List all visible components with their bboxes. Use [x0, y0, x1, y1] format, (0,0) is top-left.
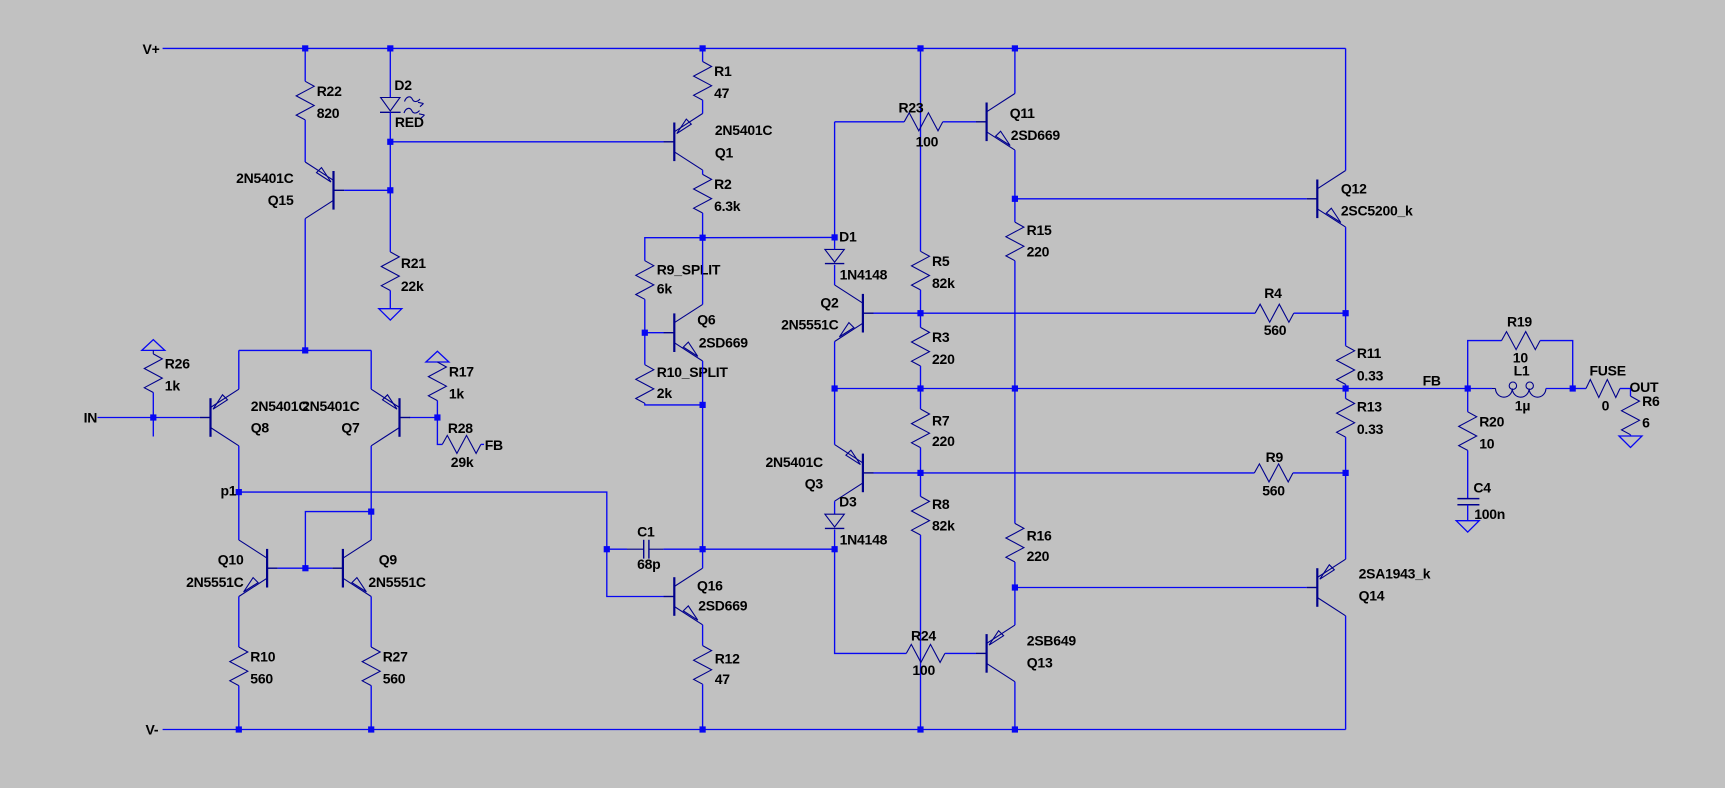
svg-text:R22: R22 — [317, 83, 342, 99]
wire Q12 emitter down — [1345, 227, 1347, 313]
resistor R27 — [362, 647, 408, 687]
wire Q14 emitter up — [1345, 473, 1347, 559]
wire R20 top lead — [1467, 389, 1469, 412]
svg-text:R5: R5 — [932, 253, 950, 269]
wire Q11 emitter to Q12 base — [1015, 198, 1307, 200]
svg-text:R20: R20 — [1479, 413, 1504, 429]
svg-text:0.33: 0.33 — [1357, 367, 1384, 383]
wire Q1 collector to R2 — [702, 170, 704, 174]
junction R17/R28/Q7 — [434, 414, 440, 420]
svg-text:FB: FB — [1423, 372, 1441, 388]
svg-text:R2: R2 — [714, 176, 732, 192]
wire C4 to ground — [1467, 505, 1469, 521]
wire Q2 base — [874, 312, 921, 314]
junction Q12 emitter/R4/R11 — [1343, 310, 1349, 316]
svg-text:82k: 82k — [932, 518, 955, 534]
wire D1 to Q2 collector — [834, 265, 836, 285]
resistor R23 — [899, 99, 943, 149]
wire R23 left lead — [835, 121, 905, 123]
flag at R26 top — [142, 340, 165, 351]
wire V+ to R5 — [920, 48, 922, 251]
junction D3 bottom — [832, 546, 838, 552]
wire Q2 base rail to R4 — [921, 312, 1256, 314]
svg-text:560: 560 — [250, 671, 273, 687]
svg-text:R12: R12 — [715, 650, 740, 666]
wire p1 rail to C1 — [239, 492, 607, 549]
ground under C4 — [1456, 521, 1479, 532]
svg-text:2SC5200_k: 2SC5200_k — [1341, 203, 1413, 219]
resistor FUSE — [1586, 363, 1626, 414]
resistor R3 — [912, 327, 956, 367]
wire Q10 emitter down — [238, 597, 240, 648]
junction tail/Q15 collector — [302, 347, 308, 353]
svg-text:6k: 6k — [657, 281, 673, 297]
wire Q14 base wire — [1015, 587, 1307, 589]
junction Q9 collector tie — [368, 509, 374, 515]
wire Q9 base-collector tie — [305, 512, 371, 569]
wire Q6 emitter to Q16 collector — [702, 405, 704, 549]
svg-text:D2: D2 — [394, 77, 412, 93]
svg-text:Q11: Q11 — [1010, 105, 1035, 121]
wire Q13 collector down — [1014, 682, 1016, 730]
svg-text:C1: C1 — [637, 523, 655, 539]
resistor R11 — [1337, 346, 1355, 385]
svg-text:Q3: Q3 — [805, 476, 824, 492]
junction R8 V- — [917, 726, 923, 732]
junction V+ R1 — [700, 45, 706, 51]
svg-text:R28: R28 — [448, 420, 473, 436]
svg-text:2SD669: 2SD669 — [1011, 127, 1061, 143]
resistor R2 — [694, 174, 741, 214]
svg-text:RED: RED — [395, 114, 424, 130]
wire R5 to Q2 base node — [920, 290, 922, 313]
wire R10_SPLIT top lead — [644, 333, 646, 365]
junction R12 V- — [700, 726, 706, 732]
junction V+ R5 — [917, 45, 923, 51]
transistor Q6 — [664, 304, 749, 361]
transistor Q1 — [664, 114, 773, 171]
junction R15/R16 FB — [1012, 385, 1018, 391]
resistor R7 — [912, 409, 930, 448]
svg-text:68p: 68p — [637, 556, 660, 572]
resistor R15 — [1006, 222, 1024, 261]
wire Q10 collector up — [238, 492, 240, 540]
capacitor C1 — [627, 523, 663, 572]
junction V+ Q11 — [1012, 45, 1018, 51]
svg-text:2SD669: 2SD669 — [699, 334, 749, 350]
svg-text:2SD669: 2SD669 — [698, 598, 748, 614]
wire V+ rail — [163, 47, 1346, 49]
svg-text:2SA1943_k: 2SA1943_k — [1359, 566, 1431, 582]
wire R11 top lead — [1345, 313, 1347, 346]
svg-text:R13: R13 — [1357, 399, 1382, 415]
svg-text:560: 560 — [383, 671, 406, 687]
resistor R12 — [694, 646, 712, 685]
svg-text:560: 560 — [1264, 322, 1287, 338]
wire R26 flag stub — [152, 350, 154, 354]
svg-text:R27: R27 — [383, 649, 408, 665]
svg-text:2N5551C: 2N5551C — [781, 317, 839, 333]
wire Q15 collector — [304, 219, 306, 351]
svg-text:IN: IN — [84, 410, 98, 426]
wire Q12 collector to V+ — [1345, 48, 1347, 170]
svg-text:Q2: Q2 — [820, 295, 839, 311]
wire R9_SPLIT to base junction — [644, 299, 646, 332]
wire R23 elbow down to D1 — [834, 122, 836, 238]
transistor Q9 — [332, 540, 426, 597]
transistor Q10 — [186, 540, 278, 597]
junction C1/p1 — [604, 546, 610, 552]
svg-text:R3: R3 — [932, 329, 950, 345]
wire D3 junction down to R24 — [835, 549, 907, 653]
transistor Q16 — [664, 568, 748, 625]
svg-text:1N4148: 1N4148 — [840, 531, 888, 547]
junction R11/R13 FB — [1343, 385, 1349, 391]
resistor R9 — [1254, 449, 1293, 498]
junction node p1 — [236, 489, 242, 495]
svg-text:220: 220 — [1027, 243, 1050, 259]
svg-text:820: 820 — [317, 105, 340, 121]
svg-text:D3: D3 — [839, 493, 857, 509]
resistor R22 — [296, 81, 342, 121]
svg-text:0.33: 0.33 — [1357, 421, 1384, 437]
junction R10 V- — [236, 726, 242, 732]
ground under R21 — [379, 309, 402, 320]
svg-text:R4: R4 — [1264, 285, 1282, 301]
svg-text:Q15: Q15 — [268, 192, 294, 208]
wire Q3 base rail to R9 — [921, 472, 1255, 474]
svg-text:FUSE: FUSE — [1590, 363, 1626, 379]
transistor Q11 — [976, 94, 1060, 151]
LED D2 — [380, 97, 425, 118]
wire Q7 emitter up — [370, 350, 372, 389]
wire Q6 emitter down — [702, 361, 704, 405]
junction Q14 emitter/R9/R13 — [1343, 470, 1349, 476]
junction R2/Q6 collector — [700, 235, 706, 241]
wire R7 top lead — [920, 389, 922, 410]
svg-text:47: 47 — [714, 85, 730, 101]
wire V- rail — [163, 729, 1346, 731]
wire R2 junction to D1 — [703, 236, 835, 238]
transistor Q3 — [765, 445, 873, 502]
svg-text:R8: R8 — [932, 496, 950, 512]
svg-text:100: 100 — [912, 662, 935, 678]
wire IN stub — [152, 418, 154, 437]
svg-text:Q10: Q10 — [218, 551, 244, 567]
transistor Q12 — [1307, 171, 1413, 228]
svg-text:220: 220 — [1027, 548, 1050, 564]
svg-text:100n: 100n — [1474, 506, 1505, 522]
wire junction left to R9_SPLIT — [645, 238, 703, 261]
wire R3 to rail — [920, 366, 922, 389]
svg-text:R10_SPLIT: R10_SPLIT — [657, 364, 729, 380]
resistor R13 — [1337, 399, 1355, 438]
svg-text:6.3k: 6.3k — [714, 198, 741, 214]
svg-text:82k: 82k — [932, 275, 955, 291]
svg-text:R6: R6 — [1642, 393, 1660, 409]
wire R24 to Q13 base — [945, 652, 976, 654]
wire V+ to D2 — [389, 48, 391, 97]
wire R13 top lead — [1345, 389, 1347, 399]
wire Q3 collector down — [834, 501, 836, 514]
wire R1 to Q1 emitter — [702, 100, 704, 113]
resistor R5 — [912, 251, 956, 291]
wire R9 to Q14 emitter node — [1293, 472, 1346, 474]
transistor Q13 — [976, 625, 1076, 682]
transistor Q2 — [781, 285, 873, 342]
resistor R21 — [381, 252, 399, 291]
wire R28 to FB flag — [481, 443, 484, 445]
resistor R24 — [906, 628, 945, 679]
svg-text:R26: R26 — [165, 356, 190, 372]
svg-text:Q6: Q6 — [697, 312, 716, 328]
junction R27 V- — [368, 726, 374, 732]
wire R26 bottom lead — [152, 393, 154, 418]
resistor R4 — [1255, 285, 1294, 338]
svg-text:R17: R17 — [449, 364, 474, 380]
wire Q15 base — [344, 189, 390, 191]
svg-text:V+: V+ — [143, 41, 160, 57]
capacitor C4 — [1457, 480, 1505, 523]
svg-text:2N5401C: 2N5401C — [302, 398, 360, 414]
junction Q6 base — [642, 330, 648, 336]
svg-text:R9_SPLIT: R9_SPLIT — [657, 262, 721, 278]
wire FB rail — [835, 388, 1468, 390]
junction Q2 emitter rail — [832, 385, 838, 391]
wire IN to Q8 base — [98, 417, 200, 419]
svg-text:1N4148: 1N4148 — [840, 267, 888, 283]
wire R10_SPLIT bottom elbow — [645, 403, 703, 405]
wire up to R19 — [1468, 341, 1502, 389]
wire R16 to Q14 base node — [1014, 562, 1016, 588]
transistor Q15 — [236, 162, 344, 219]
junction R3/R7 rail — [917, 385, 923, 391]
wire R6 top lead — [1630, 389, 1632, 397]
junction D2/Q1 base — [387, 139, 393, 145]
svg-text:1µ: 1µ — [1515, 398, 1531, 414]
wire R22 to Q15 emitter — [304, 120, 306, 162]
wire L1 right lead — [1546, 388, 1573, 390]
flag at R17 top — [426, 351, 449, 362]
svg-text:R15: R15 — [1027, 222, 1052, 238]
wire Q3 base — [874, 472, 921, 474]
wire FUSE left lead — [1573, 388, 1586, 390]
wire Q9 emitter down — [370, 597, 372, 648]
svg-text:2N5401C: 2N5401C — [251, 398, 309, 414]
wire R2 to junction — [702, 213, 704, 238]
wire R3 top lead — [920, 313, 922, 327]
svg-text:R9: R9 — [1266, 449, 1284, 465]
svg-text:Q9: Q9 — [379, 551, 398, 567]
wire V+ to R1 — [702, 48, 704, 61]
svg-text:2N5401C: 2N5401C — [715, 122, 773, 138]
transistor Q14 — [1307, 559, 1431, 616]
svg-text:560: 560 — [1262, 483, 1285, 499]
resistor R8 — [912, 496, 930, 535]
junction R16/Q14 base — [1012, 584, 1018, 590]
svg-text:R7: R7 — [932, 412, 950, 428]
wire FUSE to OUT — [1620, 388, 1631, 390]
junction D1 top — [832, 234, 838, 240]
svg-text:Q12: Q12 — [1341, 181, 1367, 197]
wire R6 to ground — [1630, 435, 1632, 436]
wire Q14 collector to V- — [1345, 616, 1347, 730]
resistor R10 — [230, 647, 276, 687]
resistor R9_SPLIT — [636, 261, 654, 300]
svg-text:R19: R19 — [1507, 314, 1532, 330]
wire R7 to Q3 base node — [920, 448, 922, 473]
resistor R10_SPLIT — [636, 365, 654, 404]
wire R11 to FB rail — [1345, 384, 1347, 388]
wire C1 to Q16 collector node — [663, 548, 834, 550]
junction Q11 emitter — [1012, 196, 1018, 202]
wire R27 to V- — [370, 686, 372, 730]
resistor R26 — [144, 354, 190, 394]
resistor R28 — [442, 420, 481, 470]
junction mirror bases — [302, 565, 308, 571]
resistor R1 — [694, 62, 732, 102]
transistor Q7 — [302, 389, 410, 446]
junction D2/Q15 base — [387, 187, 393, 193]
wire R12 to V- — [702, 684, 704, 729]
junction Q13 V- — [1012, 726, 1018, 732]
svg-text:Q7: Q7 — [341, 420, 360, 436]
wire Q7 base — [409, 417, 437, 419]
svg-text:Q8: Q8 — [251, 420, 270, 436]
svg-text:R24: R24 — [911, 628, 936, 644]
wire Q11 emitter node to R15 — [1014, 199, 1016, 222]
wire Q13 emitter up — [1014, 588, 1016, 626]
wire Q3 emitter up — [834, 389, 836, 445]
wire Q6 base — [645, 332, 664, 334]
wire Q10-Q9 base rail — [278, 567, 333, 569]
svg-text:D1: D1 — [839, 229, 857, 245]
svg-text:2k: 2k — [657, 385, 673, 401]
resistor R19 — [1502, 314, 1541, 366]
svg-text:22k: 22k — [401, 278, 424, 294]
svg-text:R11: R11 — [1357, 345, 1382, 361]
svg-text:Q1: Q1 — [715, 145, 734, 161]
wire Q6 collector up — [702, 238, 704, 305]
wire Q11 emitter down — [1014, 150, 1016, 199]
svg-text:p1: p1 — [221, 482, 237, 498]
svg-text:FB: FB — [485, 437, 503, 453]
junction Q16 collector — [700, 546, 706, 552]
wire Q2 emitter down — [834, 342, 836, 389]
resistor R17 — [428, 362, 474, 402]
svg-text:R23: R23 — [899, 99, 924, 115]
wire Q16 collector up — [702, 549, 704, 568]
junction IN/R26 — [150, 414, 156, 420]
wire R28 down — [437, 418, 442, 445]
wire Q7 collector down — [370, 446, 372, 540]
svg-text:R1: R1 — [714, 63, 732, 79]
diode D1 — [825, 229, 888, 283]
resistor R20 — [1459, 412, 1505, 452]
wire D2 to Q1 base — [390, 141, 664, 143]
wire R23 to Q11 base — [943, 121, 976, 123]
wire R20 to C4 — [1467, 450, 1469, 498]
wire Q8 collector down — [238, 446, 240, 492]
wire D3 to C1 rail — [834, 530, 836, 550]
svg-text:L1: L1 — [1514, 363, 1530, 379]
svg-text:1k: 1k — [449, 386, 465, 402]
junction Q3 base/R8 — [917, 470, 923, 476]
wire Q8 emitter up — [238, 350, 240, 389]
wire FB rail to R16 — [1014, 389, 1016, 524]
wire R8 to V- — [920, 535, 922, 730]
wire V+ to R22 — [304, 48, 306, 81]
svg-text:0: 0 — [1602, 398, 1610, 414]
svg-text:10: 10 — [1479, 435, 1495, 451]
junction Q6 emitter/R10_SPLIT — [700, 402, 706, 408]
inductor L1 — [1468, 363, 1546, 414]
svg-text:2N5551C: 2N5551C — [368, 574, 426, 590]
wire R4 to Q12 emitter — [1294, 312, 1346, 314]
svg-text:2N5401C: 2N5401C — [236, 170, 294, 186]
svg-text:C4: C4 — [1473, 480, 1491, 496]
wire R19 right elbow — [1540, 341, 1573, 389]
junction FB/R19/L1/R20 — [1465, 385, 1471, 391]
svg-text:Q13: Q13 — [1027, 655, 1053, 671]
wire R21 to ground — [389, 291, 391, 309]
wire Q16 emitter down — [702, 625, 704, 646]
resistor R16 — [1006, 523, 1024, 562]
svg-text:R21: R21 — [401, 255, 426, 271]
wire emitter tail rail — [239, 349, 371, 351]
svg-text:29k: 29k — [451, 454, 474, 470]
svg-text:6: 6 — [1642, 415, 1650, 431]
svg-text:1k: 1k — [165, 378, 181, 394]
wire R8 top lead — [920, 473, 922, 497]
svg-text:2SB649: 2SB649 — [1027, 633, 1077, 649]
svg-text:Q16: Q16 — [697, 578, 723, 594]
svg-text:2N5551C: 2N5551C — [186, 574, 244, 590]
wire D1 lead — [834, 237, 836, 249]
svg-text:R10: R10 — [250, 649, 275, 665]
svg-text:47: 47 — [715, 671, 731, 687]
wire R17 to Q7 base — [436, 401, 438, 418]
transistor Q8 — [200, 389, 308, 446]
svg-text:100: 100 — [916, 134, 939, 150]
svg-text:Q14: Q14 — [1359, 588, 1385, 604]
svg-text:R16: R16 — [1027, 527, 1052, 543]
wire C1 left — [607, 548, 627, 550]
junction V+ D2 — [387, 45, 393, 51]
wire Q16 base route — [607, 549, 664, 596]
svg-text:2N5401C: 2N5401C — [765, 454, 823, 470]
junction L1/R19/FUSE — [1570, 385, 1576, 391]
svg-text:220: 220 — [932, 433, 955, 449]
diode D3 — [825, 493, 888, 547]
ground under R6 — [1619, 436, 1642, 447]
junction V+ R22 — [302, 45, 308, 51]
wire Q11 collector up — [1014, 48, 1016, 93]
junction Q2 base/R3 — [917, 310, 923, 316]
svg-text:220: 220 — [932, 351, 955, 367]
svg-text:V-: V- — [146, 721, 159, 737]
wire D2 cathode down — [389, 112, 391, 252]
resistor R6 — [1622, 396, 1640, 435]
wire R15 to FB rail — [1014, 261, 1016, 389]
wire R10 to V- — [238, 686, 240, 730]
wire R13 bottom lead — [1345, 437, 1347, 473]
